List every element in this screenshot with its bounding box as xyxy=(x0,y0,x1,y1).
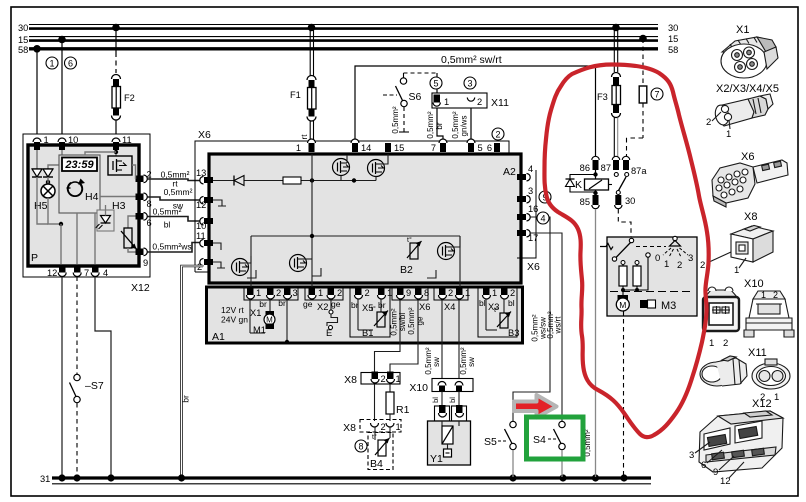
svg-text:br: br xyxy=(378,300,386,310)
svg-text:2: 2 xyxy=(381,422,386,432)
wire M3 to bus31 (dashed) xyxy=(623,311,625,477)
svg-text:F1: F1 xyxy=(290,90,301,100)
svg-text:4: 4 xyxy=(103,268,108,278)
svg-text:12V rt: 12V rt xyxy=(221,305,244,315)
svg-text:8: 8 xyxy=(358,442,363,452)
svg-text:X2: X2 xyxy=(317,302,328,312)
P pin 2 (right) xyxy=(136,170,152,183)
svg-text:17: 17 xyxy=(528,233,538,243)
svg-text:11: 11 xyxy=(196,231,206,241)
diode V1 in P xyxy=(32,169,42,177)
svg-text:13: 13 xyxy=(196,168,206,178)
mosfet T3 in A2 xyxy=(232,256,252,276)
svg-text:1: 1 xyxy=(465,288,470,298)
circled 5 xyxy=(430,73,442,94)
P internal wire pin10 down xyxy=(48,150,62,169)
svg-text:2: 2 xyxy=(448,288,453,298)
mosfet T5 in A2 xyxy=(438,236,461,260)
node below diode V2 xyxy=(46,180,50,184)
svg-text:1: 1 xyxy=(726,129,731,140)
wire A2 pin16 to S5 (0,5mm2 ws/sw) xyxy=(513,217,550,421)
svg-text:30: 30 xyxy=(668,23,678,33)
svg-text:X6: X6 xyxy=(198,129,211,141)
svg-text:rt: rt xyxy=(300,134,309,140)
svg-text:15: 15 xyxy=(394,143,404,153)
wire clock top feed xyxy=(85,152,116,155)
svg-text:t°: t° xyxy=(372,433,377,441)
svg-text:1: 1 xyxy=(387,288,392,298)
M3 dashed separator xyxy=(610,291,694,293)
svg-text:M3: M3 xyxy=(661,300,676,312)
M3 third brush lead xyxy=(623,257,648,290)
svg-text:H5: H5 xyxy=(34,200,48,212)
relay K pin 86 xyxy=(580,156,600,173)
node on bus 58 xyxy=(33,45,41,53)
svg-text:0,5mm²: 0,5mm² xyxy=(164,187,193,197)
svg-text:sw/bl: sw/bl xyxy=(398,313,407,331)
connector pictogram X10 left xyxy=(703,278,764,349)
bus 15 xyxy=(18,34,678,45)
svg-text:X8: X8 xyxy=(744,211,757,223)
svg-text:7: 7 xyxy=(84,268,89,278)
svg-text:br: br xyxy=(435,122,444,129)
svg-text:3: 3 xyxy=(467,79,472,89)
P pin 12 (bottom) xyxy=(47,265,66,279)
wire X11 pin1 to A2 pin7 xyxy=(426,108,444,143)
bus 31 xyxy=(40,474,651,484)
circled 7 xyxy=(651,88,663,100)
svg-text:10: 10 xyxy=(196,221,206,231)
wire X6 pin8 to X8 pin1 (0,5mm2 ge) xyxy=(390,300,425,372)
A2 pin 2 (left) xyxy=(197,259,213,273)
P internal wires to bottom pins 7 and 4 xyxy=(76,213,78,264)
wire S7 to bus 31 (dashed) xyxy=(76,403,78,477)
connector X2 on A1 (pin box) xyxy=(305,288,343,300)
svg-text:1: 1 xyxy=(318,288,323,298)
wire F1 to A2 pin1 (double line) xyxy=(309,121,311,144)
svg-text:br: br xyxy=(278,298,286,308)
svg-text:X11: X11 xyxy=(748,347,767,359)
svg-text:S4: S4 xyxy=(533,434,546,446)
connector pictogram X1 xyxy=(721,24,778,78)
svg-text:X1: X1 xyxy=(736,24,749,36)
wire relay 85 to bus31 xyxy=(595,209,597,477)
wire 0,5mm2 sw/rt: A2 pin14 up and over to relay pin 86 xyxy=(355,54,596,158)
A2 pin 17 (right) xyxy=(517,230,538,244)
svg-text:F3: F3 xyxy=(597,92,608,102)
svg-text:t°: t° xyxy=(494,306,499,314)
wire P pin12 to bus 31 xyxy=(61,277,63,478)
svg-text:2: 2 xyxy=(723,338,728,349)
svg-text:B4: B4 xyxy=(370,458,383,470)
svg-text:10: 10 xyxy=(68,135,78,145)
X1 pin 2 xyxy=(267,287,282,299)
svg-text:6: 6 xyxy=(487,143,492,153)
valve Y1 xyxy=(428,421,471,465)
wire A2 pin17 to S4 (0,5mm2 ws/rt) xyxy=(531,233,563,421)
wire X11 pin2 to A2 pin5 xyxy=(451,108,471,143)
svg-text:bl: bl xyxy=(431,397,440,403)
wire P pin9 to X6 pin11 (0,5mm2 ws) xyxy=(148,242,204,253)
wire bus30 to fuse F1 (double line) xyxy=(309,28,311,77)
svg-text:br: br xyxy=(181,395,191,403)
wire bus58 to P pin1 xyxy=(36,49,38,138)
svg-text:S6: S6 xyxy=(409,91,422,103)
X5 pin 1 xyxy=(378,287,393,299)
svg-text:B3: B3 xyxy=(508,328,519,338)
svg-text:sw: sw xyxy=(467,357,476,367)
gate hook of T5 xyxy=(427,270,436,278)
node A2 x312 y181 xyxy=(310,178,314,182)
A2 pin 5 (top) xyxy=(467,139,483,153)
M3 node r1 bottom xyxy=(621,288,625,292)
svg-text:3: 3 xyxy=(293,288,298,298)
svg-text:X11: X11 xyxy=(491,97,509,109)
M3 speed selector xyxy=(655,236,693,271)
relay K coil xyxy=(575,170,609,195)
wire diode V1 down xyxy=(37,177,48,224)
P pin 6 (right) xyxy=(136,213,152,229)
mosfet T2 in A2 xyxy=(368,154,389,181)
switch S5 xyxy=(484,421,516,449)
X3 pin 2 xyxy=(501,287,516,299)
gate hook of T3 xyxy=(247,270,256,278)
svg-text:2: 2 xyxy=(147,170,152,180)
A2 pin 1 (top) xyxy=(296,139,316,153)
svg-text:5: 5 xyxy=(478,143,483,153)
circled 4 xyxy=(537,212,549,224)
svg-text:bl: bl xyxy=(479,298,486,308)
connector X8 (solid) xyxy=(344,372,401,387)
stub at A2 pin 12 xyxy=(213,200,226,206)
X4 pin 2 xyxy=(439,287,454,299)
svg-text:bl: bl xyxy=(508,298,515,308)
svg-text:F2: F2 xyxy=(124,93,135,103)
node bus31 relay85 xyxy=(592,474,599,481)
svg-text:0,5mm²: 0,5mm² xyxy=(153,207,182,217)
svg-text:85: 85 xyxy=(580,197,590,207)
X6 pin 8 xyxy=(415,287,430,299)
svg-text:2: 2 xyxy=(495,130,500,140)
X2 pin 1 xyxy=(308,287,323,299)
connector X10 xyxy=(409,379,473,395)
wire F2 to P pin11 xyxy=(115,120,117,138)
connector X4 pins on A1 xyxy=(434,288,468,300)
connector X8 (dashed counterpart) xyxy=(343,420,401,435)
svg-text:6: 6 xyxy=(68,59,73,69)
svg-text:ge: ge xyxy=(303,299,313,309)
svg-text:bl: bl xyxy=(164,220,171,230)
svg-text:87: 87 xyxy=(601,163,611,173)
control unit A2 xyxy=(209,154,521,283)
svg-text:58: 58 xyxy=(18,45,28,55)
svg-text:X4: X4 xyxy=(444,302,455,312)
A2 internal wire from pin13 with diode and resistor xyxy=(213,176,376,186)
driver box in P (top right) xyxy=(108,156,132,175)
connector X5 on A1 (B1 box) xyxy=(350,288,390,337)
node on pin12 wire xyxy=(59,222,63,226)
X1 pin 1 xyxy=(247,287,262,299)
X3 pin 1 xyxy=(483,287,498,299)
control unit A1 xyxy=(207,287,523,343)
sensor B3 xyxy=(486,299,519,338)
svg-text:0,5mm²: 0,5mm² xyxy=(426,111,435,138)
annotation red arrow xyxy=(514,395,557,418)
svg-text:9: 9 xyxy=(406,288,411,298)
svg-text:0: 0 xyxy=(655,253,660,264)
clock module H4 xyxy=(59,155,100,213)
connector pictogram X2/X3/X4/X5 xyxy=(706,83,779,140)
wire driver box to P pin2 xyxy=(132,165,136,179)
svg-text:P: P xyxy=(31,252,38,264)
node A2 x312 y236 xyxy=(310,234,314,238)
svg-text:4: 4 xyxy=(528,164,533,174)
stub at A2 pin 2 xyxy=(213,262,225,268)
svg-text:23:59: 23:59 xyxy=(64,159,94,171)
svg-text:sw: sw xyxy=(432,357,441,367)
svg-text:87a: 87a xyxy=(631,166,647,176)
wire X4 pin2 to X10 (0,5mm2 sw) xyxy=(424,300,442,381)
node bus31 x111 xyxy=(107,474,114,481)
circled 2 xyxy=(492,128,504,140)
switch S6 (dashed leads) xyxy=(383,73,437,134)
connector X6 outline (top and left strips) xyxy=(195,129,509,272)
highlight red loop xyxy=(544,65,708,438)
svg-text:bl: bl xyxy=(448,397,457,403)
svg-text:86: 86 xyxy=(580,163,590,173)
node bus31 x77 xyxy=(73,474,80,481)
wire X4 pin1 to X10 (0,5mm2 sw) xyxy=(459,300,476,381)
connector pictogram X6 xyxy=(712,151,788,207)
svg-text:gn/ws: gn/ws xyxy=(460,116,469,137)
X6 pin 9 xyxy=(397,287,412,299)
svg-text:X10: X10 xyxy=(744,278,764,290)
M3 node r2 bottom xyxy=(635,288,639,292)
svg-text:15: 15 xyxy=(668,34,678,44)
svg-text:X6: X6 xyxy=(741,151,754,163)
svg-text:1: 1 xyxy=(734,265,739,276)
svg-text:1: 1 xyxy=(44,135,49,145)
label 12V rt / 24V gn xyxy=(221,305,248,325)
A2 pin 10 (left) xyxy=(196,218,213,232)
svg-text:B2: B2 xyxy=(400,264,413,276)
wire X6 pin2 to bus 31 (br) xyxy=(181,266,204,477)
svg-text:2: 2 xyxy=(381,374,386,384)
svg-text:X8: X8 xyxy=(343,422,356,434)
P pin 9 (right) xyxy=(136,248,149,268)
svg-text:2: 2 xyxy=(706,117,711,128)
circled 1 xyxy=(46,57,58,69)
switch S7 xyxy=(70,374,104,402)
svg-text:–S7: –S7 xyxy=(85,380,104,392)
node bus31 x62 xyxy=(58,474,65,481)
wire P pin2 to X6 pin13 (0,5mm2 rt) xyxy=(148,170,204,189)
wire diode to lamp H5 xyxy=(47,177,49,184)
svg-text:0,5mm² sw/rt: 0,5mm² sw/rt xyxy=(441,54,502,66)
fuse F3 (double-line feed from bus 30) xyxy=(597,28,621,118)
diode V2 in P xyxy=(43,169,53,177)
svg-text:X12: X12 xyxy=(752,398,772,410)
connector pictogram X11 left xyxy=(700,347,767,386)
svg-text:5: 5 xyxy=(433,79,438,89)
svg-text:15: 15 xyxy=(18,35,28,45)
A2 pin 3 (right) xyxy=(517,186,533,203)
svg-text:0,5mm²: 0,5mm² xyxy=(391,106,400,133)
svg-text:ws/rt: ws/rt xyxy=(554,316,563,335)
svg-text:12: 12 xyxy=(47,268,57,278)
svg-text:S5: S5 xyxy=(484,436,497,448)
connector X6 pins on A1 xyxy=(392,288,428,300)
switch E xyxy=(326,299,338,338)
node A2 x354 y181 xyxy=(352,178,356,182)
wire rail to X1 pin1 xyxy=(250,236,252,288)
P pin 7 (bottom) xyxy=(73,265,89,279)
P pin 8 (right) xyxy=(136,193,152,209)
svg-text:R1: R1 xyxy=(396,404,410,416)
relay K pin 30 xyxy=(615,195,636,209)
mosfet T1 in A2 xyxy=(333,155,350,181)
svg-text:24V gn: 24V gn xyxy=(221,315,248,325)
node on clock feed xyxy=(114,150,118,154)
X4 pin 1 xyxy=(456,287,471,299)
svg-text:58: 58 xyxy=(668,45,678,55)
switch S4 xyxy=(533,421,565,449)
wire rail to X4 pin1 xyxy=(459,236,461,288)
svg-text:6: 6 xyxy=(701,460,706,471)
wire node to P pin12 xyxy=(60,224,62,264)
LED H3 xyxy=(96,200,126,231)
resistor R1 xyxy=(386,384,410,421)
A2 internal horizontal rail y236 xyxy=(251,235,460,237)
svg-text:12: 12 xyxy=(196,200,206,210)
sensor B2 in A2 xyxy=(400,236,422,276)
control unit P (clock) xyxy=(28,145,139,266)
svg-text:2: 2 xyxy=(700,260,705,271)
relay contact 87-30 xyxy=(609,173,629,195)
svg-text:31: 31 xyxy=(40,474,50,484)
svg-text:2: 2 xyxy=(510,288,515,298)
wire H5 to bottom node xyxy=(48,198,61,224)
svg-text:K: K xyxy=(575,179,582,191)
svg-text:Y1: Y1 xyxy=(430,453,443,465)
svg-text:2: 2 xyxy=(276,288,281,298)
A2 pin 13 (left) xyxy=(196,168,213,184)
svg-text:1: 1 xyxy=(664,259,669,270)
P pin 11 xyxy=(112,135,132,150)
wiper motor unit M3 box xyxy=(607,237,697,316)
svg-text:E: E xyxy=(326,328,332,338)
connector X11 xyxy=(432,93,509,109)
svg-text:0,5mm²ws: 0,5mm²ws xyxy=(152,242,191,252)
node on bus 15 item7 xyxy=(639,35,647,43)
svg-text:6: 6 xyxy=(147,218,152,228)
node on bus 30 F2 xyxy=(112,24,120,32)
node on bus 30 F1 xyxy=(308,24,316,32)
svg-text:1: 1 xyxy=(296,143,301,153)
svg-text:t°: t° xyxy=(371,305,376,313)
svg-text:9: 9 xyxy=(713,467,718,478)
svg-text:X10: X10 xyxy=(409,382,428,394)
connector X6 right strip outline xyxy=(517,170,540,273)
svg-text:1: 1 xyxy=(709,338,714,349)
svg-text:1: 1 xyxy=(492,288,497,298)
circled 6 xyxy=(65,57,77,69)
stub at A2 pin 11 xyxy=(213,243,221,250)
sensor B4 (dashed box) xyxy=(368,427,393,470)
connector X1 on A1 (pin box) xyxy=(244,288,298,300)
A2 pin 6 (top) xyxy=(487,143,500,153)
Y1 pin housing left xyxy=(435,405,450,421)
A2 pin 15 (top) xyxy=(385,143,404,153)
wire P pin4 to bus 31 xyxy=(95,277,111,478)
relay freewheel diode xyxy=(566,175,596,193)
svg-text:1: 1 xyxy=(774,392,779,403)
svg-text:2: 2 xyxy=(337,288,342,298)
wire P pin6 to X6 pin10 (0,5mm2 bl) xyxy=(148,207,204,230)
circled 8 xyxy=(355,440,367,452)
relay K pin 85 xyxy=(580,195,600,209)
svg-text:1: 1 xyxy=(49,59,54,69)
connector pictogram X8 xyxy=(700,211,773,276)
A2 pin 14 (top) xyxy=(351,139,371,153)
wire bus15 to P pin10 xyxy=(61,40,63,139)
svg-text:1: 1 xyxy=(256,288,261,298)
node bus31 x181 xyxy=(178,474,185,481)
motor M3 xyxy=(616,290,676,312)
svg-text:3: 3 xyxy=(689,450,694,461)
X1 pin 3 xyxy=(284,287,298,299)
node bus31 M3 xyxy=(620,474,627,481)
svg-text:X6: X6 xyxy=(527,261,540,273)
wire relay 30 to M3 (dashed) xyxy=(618,209,631,240)
bus 30 xyxy=(18,23,678,33)
svg-text:ge: ge xyxy=(331,299,341,309)
svg-text:1: 1 xyxy=(444,97,449,107)
gate hook of T4 xyxy=(312,268,321,276)
X2 pin 2 xyxy=(327,287,342,299)
svg-text:M: M xyxy=(619,300,626,310)
connector pictogram X10 right xyxy=(744,290,794,337)
connector X3 on A1 (B3 box) xyxy=(478,288,517,337)
node bus31 S4 xyxy=(559,474,566,481)
A2 internal vertical from pin1 down to A1 xyxy=(311,154,313,288)
svg-text:B1: B1 xyxy=(362,328,373,338)
A2 pin 16 (right) xyxy=(517,204,538,221)
node M1 pin3 to case xyxy=(285,340,289,344)
M3 resistor 2 xyxy=(633,261,641,291)
P pin 1 xyxy=(33,135,49,150)
svg-text:8: 8 xyxy=(147,199,152,209)
motor M1 xyxy=(250,299,287,341)
svg-text:8: 8 xyxy=(424,288,429,298)
svg-text:3: 3 xyxy=(688,253,693,264)
svg-text:2: 2 xyxy=(365,288,370,298)
fuse F1 xyxy=(290,76,316,122)
rheostat in P xyxy=(121,216,137,252)
circled 9 xyxy=(539,191,551,203)
svg-text:M: M xyxy=(266,316,273,325)
wire pin11 into driver box xyxy=(115,150,117,156)
svg-text:7: 7 xyxy=(431,143,436,153)
A2 pin 7 (top) xyxy=(431,139,447,153)
svg-text:7: 7 xyxy=(654,90,659,100)
svg-text:3: 3 xyxy=(528,186,533,196)
svg-text:1: 1 xyxy=(396,374,401,384)
svg-text:H4: H4 xyxy=(85,191,99,203)
P pin 10 xyxy=(58,135,78,150)
A2 pin 12 (left) xyxy=(196,197,213,211)
relay K pin 87a xyxy=(622,156,647,176)
